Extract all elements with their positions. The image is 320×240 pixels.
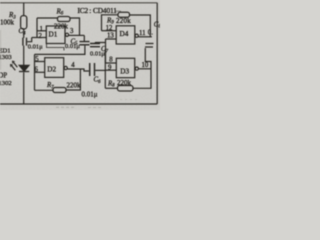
svg-text:1303: 1303 [0,54,12,61]
wire R9 right lead [130,15,151,37]
wire R8 right lead [133,48,151,88]
ghost line under D1 [47,44,65,51]
capacitor C4 [23,38,27,46]
wire top rail [0,2,157,4]
wire pin13 [106,38,117,40]
svg-text:220k: 220k [117,79,132,87]
svg-text:0.01μ: 0.01μ [28,44,43,51]
capacitor C8 plates [145,44,154,48]
capacitor C7 [105,39,107,63]
svg-text:220k: 220k [67,81,82,89]
wire pin4 out [67,69,89,71]
svg-text:2: 2 [39,33,43,40]
wire pin9 [105,69,116,71]
capacitor C5 [83,35,85,41]
wire R6 left lead [37,17,58,19]
svg-text:IC2:CD4011: IC2:CD4011 [78,6,118,15]
resistor R7 [53,88,66,93]
wire R7 right lead [66,69,80,90]
svg-text:0.01μ: 0.01μ [82,91,98,99]
wire R9 left lead [102,15,119,31]
wire pin1 [37,30,46,32]
wire R6 right lead [70,18,80,35]
svg-text:D2: D2 [47,65,56,73]
wire pin10 out [138,68,151,70]
wire bottom bus [0,103,157,105]
svg-text:8: 8 [109,57,113,64]
svg-text:0.: 0. [148,30,153,37]
wire C4 node to LED [23,46,25,66]
svg-text:—: — [114,9,122,15]
resistor R8 [118,86,134,92]
wire pin6 [35,71,45,73]
svg-text:13: 13 [107,33,114,40]
wire R3 to C4 node [23,29,25,38]
wire R7 left lead [35,89,54,91]
wire pin5 [35,61,45,63]
svg-text:220k: 220k [116,17,131,25]
gate D2 [45,58,64,78]
resistor R3 [21,16,27,29]
svg-text:6: 6 [35,67,39,74]
svg-text:D3: D3 [120,68,129,76]
wire supply drop to R3 [23,3,25,16]
wire right rail [156,3,158,104]
wire input connector D1 [36,18,38,38]
svg-text:1302: 1302 [0,80,12,87]
svg-text:220k: 220k [54,23,69,31]
resistor R6 [58,17,71,22]
gate D4 [116,26,135,44]
gate D3 [116,58,134,77]
gate D1 [46,26,65,44]
svg-text:100k: 100k [0,19,15,27]
text labels [0,6,161,99]
wire input connector D3 [104,51,106,88]
svg-text:DP: DP [0,72,7,79]
svg-text:D1: D1 [49,31,58,39]
svg-text:4: 4 [71,62,75,69]
wire pin3 out [69,34,85,36]
svg-text:0.01μ: 0.01μ [90,51,105,58]
svg-text:D4: D4 [120,30,129,38]
svg-text:9: 9 [108,65,112,72]
wire C5 to D2 inputs [35,46,85,55]
scan noise marks [1,30,139,108]
svg-text:0.01μ: 0.01μ [65,43,80,50]
wire LED to bus [23,72,25,104]
svg-text:3: 3 [70,28,74,35]
wire pin12 [102,30,117,32]
resistor R9 [118,12,130,17]
svg-text:5: 5 [35,56,39,63]
svg-text:10: 10 [142,62,149,69]
wire pin8 [105,62,116,64]
svg-text:11: 11 [139,30,146,37]
wire pin2 [32,37,47,39]
wire input connector D2 [34,54,36,90]
wire pin11 out [138,36,152,38]
LED LED1 [19,65,29,71]
capacitor C6 [90,63,95,76]
svg-text:12: 12 [106,25,113,32]
wire R8 left lead [105,87,117,89]
